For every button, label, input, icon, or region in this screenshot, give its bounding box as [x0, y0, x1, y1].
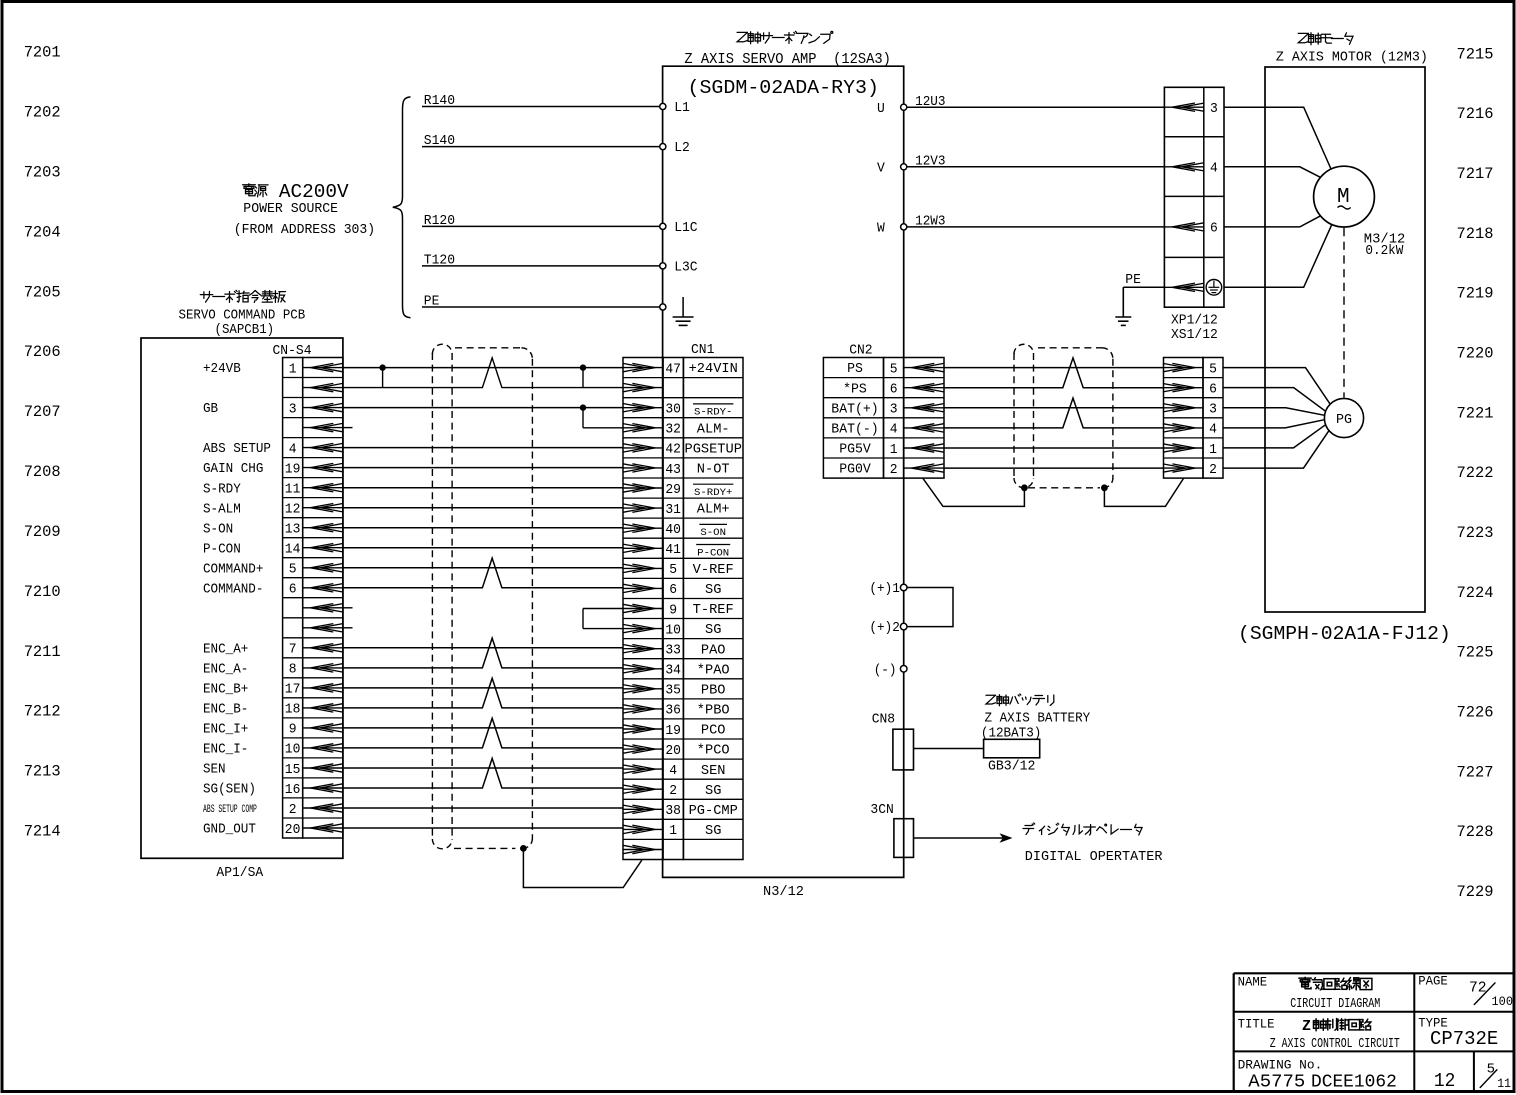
svg-text:XP1/12: XP1/12 — [1171, 314, 1218, 329]
title block frame — [1234, 973, 1514, 1091]
CN-S4 row 13 spare — [303, 604, 343, 612]
svg-text:ALM+: ALM+ — [697, 503, 730, 518]
svg-text:Z AXIS CONTROL CIRCUIT: Z AXIS CONTROL CIRCUIT — [1270, 1037, 1400, 1052]
CN-S4 row 24 GND_OUT pin 20 — [203, 822, 343, 838]
wire encoder PG0V to PG — [1223, 431, 1329, 469]
CN-S4 row 18 ENC_B- pin 18 — [203, 702, 343, 718]
wire encoder BAT(-) to PG — [1223, 420, 1325, 428]
svg-text:L3C: L3C — [674, 261, 697, 276]
svg-text:41: 41 — [665, 542, 681, 558]
svg-text:POWER SOURCE: POWER SOURCE — [243, 201, 338, 217]
svg-text:XS1/12: XS1/12 — [1171, 328, 1218, 343]
wire +24V branch row 2 — [343, 358, 623, 388]
svg-text:ABS SETUP: ABS SETUP — [203, 442, 271, 457]
svg-text:7201: 7201 — [24, 44, 61, 62]
svg-text:R140: R140 — [424, 94, 455, 109]
CN-S4 row 4 spare — [303, 423, 343, 431]
svg-text:COMMAND+: COMMAND+ — [203, 562, 263, 577]
amp terminal L3C pin circle — [660, 261, 698, 276]
svg-text:12: 12 — [1434, 1070, 1456, 1092]
svg-text:ALM-: ALM- — [697, 422, 730, 437]
wire W phase to motor — [1224, 216, 1321, 227]
connector XS1/12 encoder pin table — [1164, 358, 1224, 479]
XP PE pin arrow and earth symbol — [1164, 280, 1221, 296]
svg-text:20: 20 — [665, 743, 681, 759]
svg-text:PG5V: PG5V — [839, 443, 871, 458]
wire S-ALM/ALM+ — [343, 507, 623, 509]
wire 12U3 motor phase — [907, 95, 1165, 110]
svg-text:(SGDM-02ADA-RY3): (SGDM-02ADA-RY3) — [688, 77, 880, 99]
svg-text:T-REF: T-REF — [693, 603, 734, 618]
CN-S4 row 11 COMMAND+ pin 5 — [203, 562, 343, 578]
amp terminal L1 pin circle — [660, 101, 690, 116]
svg-text:7212: 7212 — [24, 703, 61, 721]
svg-text:S-ON: S-ON — [700, 527, 726, 539]
svg-text:S-ALM: S-ALM — [203, 502, 241, 517]
amp output V pin circle — [877, 161, 907, 176]
XP pin 6 arrow — [1164, 221, 1217, 237]
svg-text:S-RDY-: S-RDY- — [694, 407, 732, 419]
svg-text:DRAWING No.: DRAWING No. — [1238, 1057, 1323, 1072]
svg-text:GND_OUT: GND_OUT — [203, 823, 256, 838]
wire GAIN CHG/N-OT — [343, 467, 623, 469]
svg-text:7224: 7224 — [1457, 584, 1494, 602]
svg-text:2: 2 — [289, 802, 297, 818]
amp output U pin circle — [877, 102, 907, 117]
svg-text:33: 33 — [665, 643, 681, 659]
FROM ADDRESS 303 label — [234, 222, 375, 238]
wire PE to amp — [422, 294, 660, 309]
title block TITLE cell — [1238, 1017, 1400, 1052]
wire S-ON/S-ON — [343, 527, 623, 529]
svg-text:PG: PG — [1336, 413, 1352, 428]
CN-S4 row 12 COMMAND- pin 6 — [203, 582, 343, 598]
svg-text:Z AXIS SERVO AMP (12SA3): Z AXIS SERVO AMP (12SA3) — [684, 51, 891, 68]
CN1 row 6 pin 43 N-OT — [623, 462, 730, 478]
svg-text:7218: 7218 — [1457, 225, 1494, 243]
junction dot GB/ALM- — [580, 404, 586, 410]
wire ENC_I-/*PCO — [343, 718, 623, 748]
motor-encoder shaft dashed link — [1343, 228, 1345, 398]
svg-text:V: V — [877, 161, 886, 176]
svg-text:ENC_I-: ENC_I- — [203, 743, 248, 758]
connector XP1/12-XS1/12 box — [1164, 87, 1224, 307]
XS encoder pin 1 arrow — [1163, 442, 1217, 458]
svg-text:1: 1 — [669, 823, 677, 839]
CN1 row 21 pin 4 SEN — [623, 763, 726, 779]
svg-text:*PBO: *PBO — [697, 704, 730, 719]
svg-text:7202: 7202 — [24, 104, 61, 122]
CN1 row 5 pin 42 PGSETUP — [623, 442, 742, 458]
svg-text:4: 4 — [289, 441, 297, 457]
svg-text:N3/12: N3/12 — [763, 885, 804, 900]
svg-text:7213: 7213 — [24, 763, 61, 781]
svg-text:20: 20 — [285, 822, 301, 838]
svg-text:32: 32 — [665, 422, 681, 438]
svg-text:16: 16 — [285, 782, 301, 798]
battery label CJK z-axis battery — [986, 694, 1054, 706]
svg-text:L1C: L1C — [674, 221, 697, 236]
svg-text:PGSETUP: PGSETUP — [685, 443, 742, 458]
wire PG5V encoder — [944, 447, 1164, 449]
svg-text:7229: 7229 — [1457, 883, 1494, 901]
svg-text:(12BAT3): (12BAT3) — [981, 727, 1041, 742]
svg-text:7206: 7206 — [24, 343, 61, 361]
servo amp title Z axis servo amp (CJK) — [737, 31, 833, 43]
CN-S4 row 1 +24VB pin 1 — [203, 361, 343, 377]
wire T-REF SG jumper — [343, 608, 623, 629]
svg-text:(+)2: (+)2 — [869, 621, 899, 636]
CN-S4 row 20 ENC_I- pin 10 — [203, 742, 343, 758]
svg-text:7205: 7205 — [24, 283, 61, 301]
svg-text:PE: PE — [424, 294, 440, 309]
connector CN2 pin table — [823, 358, 944, 479]
svg-text:12U3: 12U3 — [915, 95, 945, 110]
svg-text:N-OT: N-OT — [697, 463, 730, 478]
svg-text:7203: 7203 — [24, 163, 61, 181]
svg-text:31: 31 — [665, 502, 681, 518]
svg-text:CIRCUIT DIAGRAM: CIRCUIT DIAGRAM — [1290, 997, 1380, 1012]
XS encoder pin 4 arrow — [1163, 422, 1217, 438]
wire PS encoder — [944, 367, 1164, 369]
wire encoder shield to XS shell — [1104, 478, 1183, 506]
connector CN-S4 pin table — [283, 358, 343, 839]
battery BT1 Z AXIS BATTERY (12BAT3) box — [984, 739, 1040, 758]
CN-S4 row 16 ENC_A- pin 8 — [203, 662, 343, 678]
wire COMMAND+/V-REF — [343, 567, 623, 569]
svg-text:30: 30 — [665, 402, 681, 418]
svg-text:S-ON: S-ON — [203, 522, 233, 537]
wire +24VB to CN1-47 +24VIN — [343, 367, 623, 369]
amp terminal PE pin circle — [660, 304, 666, 310]
svg-text:5: 5 — [289, 562, 297, 578]
wire 3CN to digital operator with arrowhead — [914, 833, 1013, 843]
svg-text:7209: 7209 — [24, 523, 61, 541]
svg-text:19: 19 — [285, 461, 301, 477]
CN1 row 11 pin 5 V-REF — [623, 562, 734, 578]
battery terminal (+)1 — [869, 582, 907, 597]
wire ABS SETUP COMP/PG-CMP — [343, 807, 623, 809]
motor M1 Z AXIS MOTOR (12M3) box — [1265, 67, 1425, 612]
CN-S4 row 19 ENC_I+ pin 9 — [203, 722, 343, 738]
servo amp U1 Z AXIS SERVO AMP (12SA3) box — [663, 66, 904, 877]
svg-text:ENC_B-: ENC_B- — [203, 703, 248, 718]
svg-text:AP1/SA: AP1/SA — [216, 866, 264, 881]
svg-text:*PCO: *PCO — [697, 744, 730, 759]
svg-text:R120: R120 — [424, 214, 455, 229]
battery terminal (+)2 — [869, 621, 907, 636]
wire ENC_I+/PCO — [343, 727, 623, 729]
CN1 row 9 pin 40 S-ON — [623, 522, 727, 539]
motor title text — [1276, 50, 1428, 66]
svg-text:7204: 7204 — [24, 223, 61, 241]
battery terminal (-) — [874, 663, 907, 678]
svg-text:NAME: NAME — [1238, 975, 1268, 989]
wire GB/S-RDY- — [343, 407, 623, 409]
wire SG(SEN)/SG — [343, 758, 623, 788]
svg-text:P-CON: P-CON — [697, 547, 729, 559]
svg-text:(SGMPH-02A1A-FJ12): (SGMPH-02A1A-FJ12) — [1238, 623, 1451, 645]
svg-text:7207: 7207 — [24, 403, 61, 421]
svg-text:18: 18 — [285, 702, 301, 718]
svg-text:GB: GB — [203, 402, 218, 417]
CN2 row 5 PG5V pin 1 — [839, 442, 944, 458]
CN2 row 6 PG0V pin 2 — [839, 462, 944, 478]
amp internal PE ground symbol — [673, 297, 694, 325]
svg-text:5: 5 — [1209, 361, 1217, 377]
motor rating label M3/12 0.2kW — [1364, 232, 1406, 259]
svg-text:CN8: CN8 — [872, 713, 895, 728]
servo amp title text — [684, 51, 891, 68]
svg-text:M: M — [1337, 186, 1350, 209]
svg-text:3: 3 — [289, 401, 297, 417]
motor title Z axis motor CJK — [1298, 33, 1353, 45]
svg-text:*PAO: *PAO — [697, 663, 730, 678]
CN-S4 row 3 GB pin 3 — [203, 401, 343, 417]
svg-text:3: 3 — [1210, 101, 1218, 117]
svg-text:ABS SETUP COMP: ABS SETUP COMP — [203, 804, 257, 816]
XP pin 4 arrow — [1164, 161, 1217, 177]
CN1 row 16 pin 34 *PAO — [623, 663, 730, 679]
connector CN8 box — [872, 713, 914, 770]
svg-text:19: 19 — [665, 723, 681, 739]
title block NAME cell — [1238, 975, 1381, 1012]
svg-text:Z AXIS BATTERY: Z AXIS BATTERY — [985, 711, 1091, 726]
DIGITAL OPERTATER label — [1025, 850, 1163, 865]
connector 3CN box — [870, 803, 913, 857]
svg-text:4: 4 — [1209, 422, 1217, 438]
svg-text:Z: Z — [1302, 1018, 1311, 1035]
svg-text:0.2kW: 0.2kW — [1365, 243, 1404, 259]
CN1 row 20 pin 20 *PCO — [623, 743, 730, 759]
svg-text:SG: SG — [705, 824, 721, 839]
wire 12V3 motor phase — [907, 154, 1165, 169]
CN-S4 row 5 ABS SETUP pin 4 — [203, 441, 343, 457]
svg-text:L1: L1 — [674, 101, 690, 116]
svg-text:17: 17 — [285, 682, 301, 698]
wire P-CON/P-CON — [343, 547, 623, 549]
svg-text:5: 5 — [1487, 1061, 1495, 1077]
svg-text:43: 43 — [665, 462, 681, 478]
CN1 row 3 pin 30 S-RDY- — [623, 402, 734, 419]
svg-text:8: 8 — [289, 662, 297, 678]
net row labels 7215-7229 — [1457, 45, 1494, 901]
digital operator label CJK — [1023, 823, 1142, 835]
svg-text:7228: 7228 — [1457, 823, 1494, 841]
wire V phase to motor — [1224, 167, 1321, 178]
wire COMMAND-/SG — [343, 558, 623, 588]
svg-text:7210: 7210 — [24, 583, 61, 601]
svg-text:CN1: CN1 — [691, 343, 714, 358]
PE ground symbol — [1115, 287, 1131, 325]
svg-text:AC200V: AC200V — [279, 181, 349, 203]
wire ALM- branch — [343, 408, 623, 428]
XS encoder pin 3 arrow — [1163, 402, 1217, 418]
svg-text:3: 3 — [890, 402, 898, 418]
XP pin 3 arrow — [1164, 101, 1217, 117]
svg-text:3CN: 3CN — [870, 803, 893, 818]
svg-text:7211: 7211 — [24, 643, 61, 661]
amp terminal L2 pin circle — [660, 141, 690, 156]
svg-text:7216: 7216 — [1457, 105, 1494, 123]
svg-text:ENC_I+: ENC_I+ — [203, 723, 248, 738]
wire encoder PG5V to PG — [1223, 425, 1326, 448]
junction dot encoder shield right — [1101, 484, 1108, 491]
svg-text:10: 10 — [285, 742, 301, 758]
svg-text:GB3/12: GB3/12 — [988, 760, 1035, 775]
CN1 row 19 pin 19 PCO — [623, 723, 726, 739]
svg-text:42: 42 — [665, 442, 681, 458]
svg-text:DCEE1062: DCEE1062 — [1311, 1073, 1397, 1093]
power source brace — [393, 97, 411, 318]
title block DRAWING No cell — [1238, 1057, 1397, 1092]
CN2 row 4 BAT(-) pin 4 — [831, 422, 944, 438]
wire ABS SETUP/PGSETUP — [343, 447, 623, 449]
CN-S4 row 14 spare — [303, 624, 343, 632]
svg-text:7214: 7214 — [24, 823, 61, 841]
CN-S4 row 21 SEN pin 15 — [203, 762, 343, 778]
CN2 row 1 PS pin 5 — [847, 361, 944, 377]
svg-text:SEN: SEN — [203, 763, 226, 778]
svg-text:(FROM ADDRESS 303): (FROM ADDRESS 303) — [234, 222, 375, 238]
wire encoder *PS to PG — [1223, 388, 1326, 412]
XS encoder pin 6 arrow — [1163, 382, 1217, 398]
svg-text:PG0V: PG0V — [839, 463, 871, 478]
CN1 row 22 pin 2 SG — [623, 783, 722, 799]
svg-text:4: 4 — [1210, 161, 1218, 177]
svg-text:ENC_A+: ENC_A+ — [203, 642, 248, 657]
CN1 row 12 pin 6 SG — [623, 582, 722, 598]
svg-text:+24VIN: +24VIN — [689, 362, 738, 377]
svg-text:12V3: 12V3 — [915, 154, 945, 169]
svg-text:11: 11 — [1497, 1077, 1511, 1091]
junction dot +24V right — [580, 364, 586, 370]
wire battery jumper loop — [907, 588, 953, 627]
svg-text:100: 100 — [1492, 994, 1514, 1009]
PCB title SERVO COMMAND PCB / (SAPCB1) — [179, 308, 306, 338]
wire shield drain to CN1 shell — [523, 848, 642, 887]
CN1 row 14 pin 10 SG — [623, 622, 722, 638]
wire BAT(-) encoder — [944, 398, 1164, 428]
wire ENC_B+/PBO — [343, 687, 623, 689]
svg-text:PCO: PCO — [701, 724, 726, 739]
wire encoder BAT(+) to PG — [1223, 408, 1325, 416]
CN2 row 3 BAT(+) pin 3 — [831, 402, 944, 418]
net label N3/12 — [763, 885, 804, 900]
svg-text:SEN: SEN — [701, 764, 726, 779]
svg-text:BAT(+): BAT(+) — [831, 402, 878, 417]
svg-text:9: 9 — [289, 722, 297, 738]
svg-text:13: 13 — [285, 522, 301, 538]
svg-text:TITLE: TITLE — [1238, 1017, 1275, 1031]
servo command PCB box (SAPCB1) — [141, 338, 343, 858]
CN1 row 24 pin 1 SG — [623, 823, 722, 839]
title block TYPE cell CP732E — [1418, 1016, 1498, 1049]
XS encoder pin 2 arrow — [1163, 462, 1217, 478]
svg-text:38: 38 — [665, 803, 681, 819]
svg-text:2: 2 — [669, 783, 677, 799]
svg-text:29: 29 — [665, 482, 681, 498]
XP1/12 XS1/12 labels — [1171, 314, 1218, 344]
wire ENC_A+/PAO — [343, 647, 623, 649]
svg-text:Z AXIS MOTOR (12M3): Z AXIS MOTOR (12M3) — [1276, 50, 1428, 66]
CN-S4 row 17 ENC_B+ pin 17 — [203, 682, 343, 698]
svg-text:4: 4 — [890, 422, 898, 438]
svg-text:1: 1 — [890, 442, 898, 458]
CN-S4 row 23 ABS SETUP COMP pin 2 — [203, 802, 343, 818]
svg-text:7225: 7225 — [1457, 644, 1494, 662]
wire BAT(+) encoder — [944, 407, 1164, 409]
junction dot shield drain — [520, 845, 527, 852]
CN1 row 2 spare — [623, 383, 663, 391]
svg-text:7227: 7227 — [1457, 763, 1494, 781]
CN1 row 23 pin 38 PG-CMP — [623, 803, 738, 819]
CN1 row 7 pin 29 S-RDY+ — [623, 482, 734, 499]
wire 12W3 motor phase — [907, 215, 1165, 230]
svg-text:SG: SG — [705, 784, 721, 799]
CN1 row 17 pin 35 PBO — [623, 683, 726, 699]
svg-text:2: 2 — [890, 462, 898, 478]
motor symbol M circle — [1314, 166, 1375, 227]
svg-text:(+)1: (+)1 — [869, 582, 899, 597]
wire ENC_B-/*PBO — [343, 678, 623, 708]
svg-text:ENC_A-: ENC_A- — [203, 663, 248, 678]
POWER SOURCE label — [243, 201, 338, 217]
svg-text:CP732E: CP732E — [1430, 1028, 1498, 1050]
svg-text:1: 1 — [289, 361, 297, 377]
svg-text:COMMAND-: COMMAND- — [203, 582, 263, 597]
wire GND_OUT/SG — [343, 827, 623, 829]
svg-text:3: 3 — [1209, 402, 1217, 418]
svg-text:GAIN CHG: GAIN CHG — [203, 462, 263, 477]
svg-text:6: 6 — [1210, 221, 1218, 237]
svg-text:SERVO COMMAND PCB: SERVO COMMAND PCB — [179, 308, 306, 323]
svg-text:V-REF: V-REF — [693, 563, 734, 578]
CN-S4 row 9 S-ON pin 13 — [203, 522, 343, 538]
connector CN-S4 label — [273, 344, 312, 359]
svg-text:PE: PE — [1125, 273, 1141, 288]
svg-text:SG: SG — [705, 623, 721, 638]
svg-text:PG-CMP: PG-CMP — [689, 804, 738, 819]
CN1 row 25 spare — [623, 845, 663, 853]
svg-text:14: 14 — [285, 542, 301, 558]
svg-text:11: 11 — [285, 482, 301, 498]
svg-text:DIGITAL OPERTATER: DIGITAL OPERTATER — [1025, 850, 1163, 865]
wire PE to XP connector — [1123, 273, 1164, 317]
svg-text:CN2: CN2 — [849, 344, 872, 359]
svg-text:7219: 7219 — [1457, 285, 1494, 303]
svg-text:7215: 7215 — [1457, 45, 1494, 63]
connector CN2 label — [849, 344, 872, 359]
wire PG0V encoder — [944, 467, 1164, 469]
svg-text:5: 5 — [669, 562, 677, 578]
svg-text:P-CON: P-CON — [203, 542, 241, 557]
connector CN1 pin table — [623, 358, 743, 860]
junction dot +24V left — [379, 364, 385, 370]
svg-text:(SAPCB1): (SAPCB1) — [215, 323, 275, 338]
svg-text:W: W — [877, 222, 886, 237]
wire S-RDY/S-RDY+ — [343, 487, 623, 489]
cable shield dashed outline CN2/XS — [1014, 344, 1113, 488]
title block sheet 5/11 — [1480, 1061, 1511, 1091]
CN1 row 8 pin 31 ALM+ — [623, 502, 730, 518]
svg-text:7217: 7217 — [1457, 165, 1494, 183]
svg-text:40: 40 — [665, 522, 681, 538]
CN1 row 10 pin 41 P-CON — [623, 542, 730, 559]
CN1 row 13 pin 9 T-REF — [623, 602, 734, 618]
svg-text:47: 47 — [665, 361, 681, 377]
svg-text:PAGE: PAGE — [1418, 974, 1448, 988]
